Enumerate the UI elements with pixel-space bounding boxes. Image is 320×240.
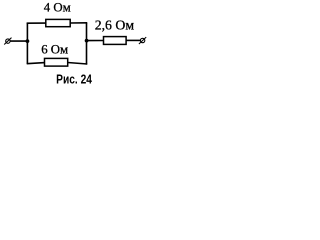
resistor R1 (4 Ом) bbox=[46, 19, 70, 26]
wire: bottom rail left segment bbox=[27, 63, 45, 64]
wire: left vertical of parallel loop bbox=[26, 23, 28, 64]
terminal left (circle with slash) bbox=[4, 38, 11, 45]
node B (junction dot right) bbox=[85, 39, 89, 43]
resistor R2 (6 Ом) bbox=[45, 58, 68, 66]
resistor R3 (2,6 Ом) bbox=[104, 37, 127, 45]
wire: top rail left segment bbox=[27, 22, 46, 24]
wire: right vertical of parallel loop bbox=[86, 23, 88, 65]
svg-text:2,6 Ом: 2,6 Ом bbox=[95, 18, 135, 33]
node A (junction dot left) bbox=[26, 39, 30, 43]
svg-text:6 Ом: 6 Ом bbox=[41, 42, 68, 56]
terminal right (circle with slash) bbox=[139, 37, 146, 44]
wire: left terminal to node A bbox=[10, 40, 27, 42]
svg-text:4 Ом: 4 Ом bbox=[44, 0, 71, 14]
background bbox=[0, 0, 153, 89]
wire: node B to R3 bbox=[87, 40, 104, 42]
wire: bottom rail right segment bbox=[68, 63, 88, 65]
wire: top rail right segment bbox=[70, 22, 87, 24]
svg-text:Рис. 24: Рис. 24 bbox=[56, 74, 92, 87]
wire: R3 to right terminal bbox=[126, 39, 140, 41]
